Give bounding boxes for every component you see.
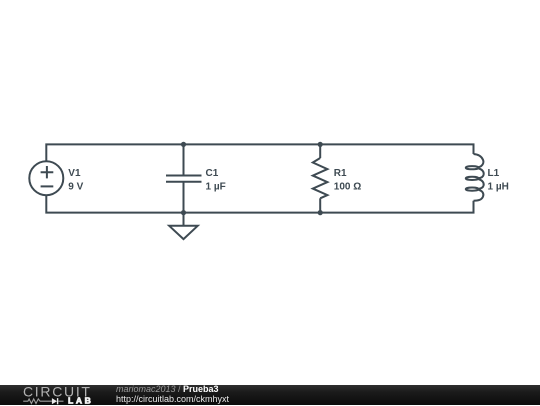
wire bottom rail with V1 and L1 leads [46, 195, 473, 212]
wire R1 top lead [319, 144, 321, 158]
inductor L1 loop 2 [466, 177, 479, 180]
node junction dot R1 bottom [318, 210, 323, 215]
url line [116, 394, 229, 405]
svg-text:V1: V1 [68, 168, 81, 179]
logo waveform resistor [23, 398, 52, 403]
voltage source V1 body [29, 161, 63, 195]
svg-text:100 Ω: 100 Ω [334, 182, 361, 193]
wire R1 bottom lead [319, 198, 321, 212]
wire ground lead [183, 213, 185, 226]
inductor L1 loop 1 [466, 166, 479, 169]
wire C1 top lead [183, 144, 185, 175]
author / title line [116, 384, 229, 395]
footer credit text [116, 384, 229, 405]
svg-text:1 µH: 1 µH [488, 182, 509, 193]
node junction dot C1 bottom [181, 210, 186, 215]
voltage source V1 minus sign [41, 185, 54, 187]
svg-text:R1: R1 [334, 168, 347, 179]
node junction dot C1 top [181, 142, 186, 147]
capacitor C1 plates [166, 176, 202, 182]
svg-text:1 µF: 1 µF [206, 182, 226, 193]
logo diode [52, 398, 57, 404]
wire top rail with V1 and L1 leads [46, 144, 473, 161]
inductor L1 coil arcs [474, 154, 484, 201]
wire C1 bottom lead [183, 182, 185, 213]
voltage source V1 plus sign [41, 166, 54, 178]
ground symbol [169, 226, 198, 239]
svg-text:LAB: LAB [68, 395, 93, 405]
CircuitLab logo [0, 385, 110, 406]
node junction dot R1 top [318, 142, 323, 147]
svg-text:C1: C1 [206, 168, 219, 179]
inductor L1 loop 3 [466, 188, 479, 191]
resistor R1 zigzag [313, 158, 328, 198]
footer bar [0, 385, 540, 406]
svg-text:L1: L1 [488, 168, 500, 179]
svg-text:9 V: 9 V [68, 182, 83, 193]
